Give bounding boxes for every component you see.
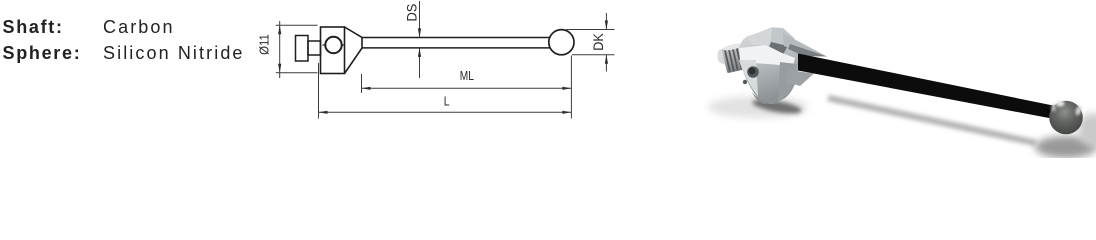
- body (drawing): [321, 27, 345, 74]
- cone taper (drawing): [345, 27, 363, 74]
- value Silicon Nitride: [103, 44, 245, 62]
- photo: shadow under ball: [1035, 136, 1096, 158]
- photo: carbon shaft: [798, 54, 1053, 119]
- label Sphere: [3, 44, 82, 62]
- svg-text:DS: DS: [404, 3, 419, 21]
- photo: contact shadow under holder: [751, 97, 802, 117]
- dimension L: [319, 56, 572, 119]
- dimension Ø11: [276, 21, 318, 78]
- svg-text:L: L: [444, 94, 450, 108]
- photo: crown facet right: [770, 28, 800, 50]
- ball (drawing): [549, 30, 574, 55]
- photo: side hole: [747, 66, 759, 78]
- photo: head bright chamfer band: [739, 45, 795, 66]
- svg-text:ML: ML: [460, 69, 475, 83]
- photo: shadow along shaft: [828, 98, 1036, 143]
- photo: threaded stud: [721, 42, 749, 73]
- neck (drawing): [308, 41, 321, 55]
- photo: stud end cap: [718, 46, 732, 68]
- dimension ML: [362, 74, 572, 93]
- photo: ball: [1049, 101, 1083, 135]
- side hole circle (drawing): [323, 37, 345, 53]
- photo: head darker right facet: [778, 62, 797, 101]
- photo: head bright left column: [739, 60, 758, 96]
- photo: crown facet left: [748, 28, 772, 45]
- photo: holder head silhouette: [739, 27, 801, 104]
- photo: head bottom shade: [752, 92, 771, 104]
- photo: wide soft shadow under holder: [708, 96, 808, 118]
- value Carbon: [103, 18, 175, 36]
- photo: upper prong dark edge: [788, 44, 827, 57]
- photo: upper claw prong over shaft: [783, 33, 827, 57]
- svg-text:Ø11: Ø11: [257, 34, 272, 55]
- photo: lower claw prong under shaft: [786, 70, 814, 86]
- label Shaft: [3, 18, 64, 36]
- photo: crown dark V shadow: [768, 42, 788, 56]
- dimension DK: [566, 13, 615, 72]
- photo: small notch: [743, 80, 747, 84]
- dimension DS: [419, 1, 421, 78]
- thread cylinder (drawing): [296, 36, 309, 62]
- svg-text:DK: DK: [591, 33, 607, 51]
- shaft lines (drawing): [362, 38, 552, 48]
